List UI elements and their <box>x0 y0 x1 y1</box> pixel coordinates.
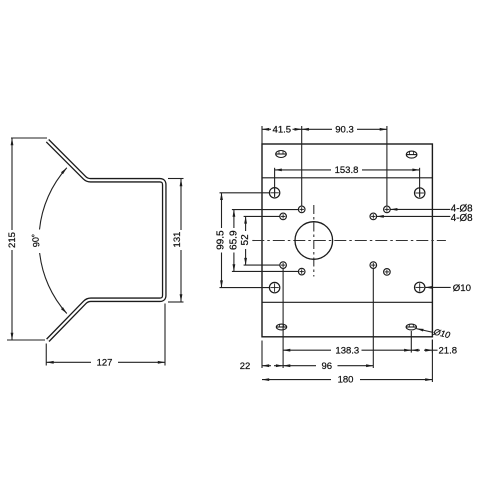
bend line top <box>262 177 432 179</box>
slot bottom-right <box>406 324 417 330</box>
svg-text:90°: 90° <box>30 233 42 248</box>
dimension 127 <box>46 304 165 366</box>
side view profile (sheet cross-section) <box>48 141 165 341</box>
svg-text:21.8: 21.8 <box>439 345 458 356</box>
leader O10 right <box>425 286 451 288</box>
hole O10 top-left <box>269 188 279 198</box>
svg-text:4-Ø8: 4-Ø8 <box>451 213 473 224</box>
hole O10 top-right <box>415 188 425 198</box>
hole O8 B1 <box>280 213 287 220</box>
hole O8 B4 <box>370 262 377 269</box>
hole O10 bottom-right <box>415 282 425 292</box>
hole O8 A2 <box>384 206 391 213</box>
dimension 52 <box>244 216 280 265</box>
angle arc 90deg <box>40 168 67 314</box>
dimension 180 <box>262 340 432 383</box>
svg-text:41.5: 41.5 <box>273 124 292 135</box>
dimension 41.5 and 90.3 extension lines <box>262 126 387 206</box>
dimension 96 <box>283 269 373 368</box>
dimension 22 <box>262 341 283 369</box>
svg-text:180: 180 <box>338 375 354 386</box>
leader 4-O8 group B <box>377 215 451 217</box>
leader O10 bottom slot (italic) <box>416 329 433 333</box>
svg-text:96: 96 <box>322 361 333 372</box>
dimension 41.5 <box>262 128 302 130</box>
slot top-right <box>406 151 417 158</box>
large center hole <box>295 222 333 260</box>
svg-text:90.3: 90.3 <box>335 124 354 135</box>
dimension 99.5 <box>220 193 270 288</box>
svg-text:138.3: 138.3 <box>335 345 359 356</box>
dimension 90.3 <box>302 128 387 130</box>
dimension 153.8 <box>275 168 420 197</box>
svg-text:Ø10: Ø10 <box>453 283 471 294</box>
hole O8 A1 <box>298 206 305 213</box>
svg-text:99.5: 99.5 <box>216 230 227 250</box>
hole O8 B2 <box>370 213 377 220</box>
hole O8 A4 <box>384 269 391 276</box>
svg-text:153.8: 153.8 <box>335 165 359 176</box>
hole O10 bottom-left <box>269 282 279 292</box>
dimension 21.8 <box>411 340 437 353</box>
hole O8 B3 <box>280 262 287 269</box>
dimension 65.9 <box>232 210 299 272</box>
dimension 138.3 <box>283 269 411 368</box>
dimension 131 <box>168 179 184 303</box>
svg-text:131: 131 <box>172 232 183 248</box>
svg-text:65.9: 65.9 <box>229 230 240 250</box>
dimension 215 <box>7 138 47 340</box>
centerline horizontal <box>252 240 446 242</box>
centerline vertical <box>313 205 315 277</box>
svg-text:22: 22 <box>240 361 251 372</box>
leader 4-O8 group A <box>390 208 450 210</box>
bend line bottom <box>262 301 432 303</box>
svg-text:127: 127 <box>97 358 113 369</box>
plate outline <box>262 144 432 337</box>
slot top-left <box>276 151 287 158</box>
svg-text:215: 215 <box>7 232 18 248</box>
svg-text:52: 52 <box>240 234 251 246</box>
slot bottom-left <box>276 324 287 330</box>
hole O8 A3 <box>298 268 305 275</box>
